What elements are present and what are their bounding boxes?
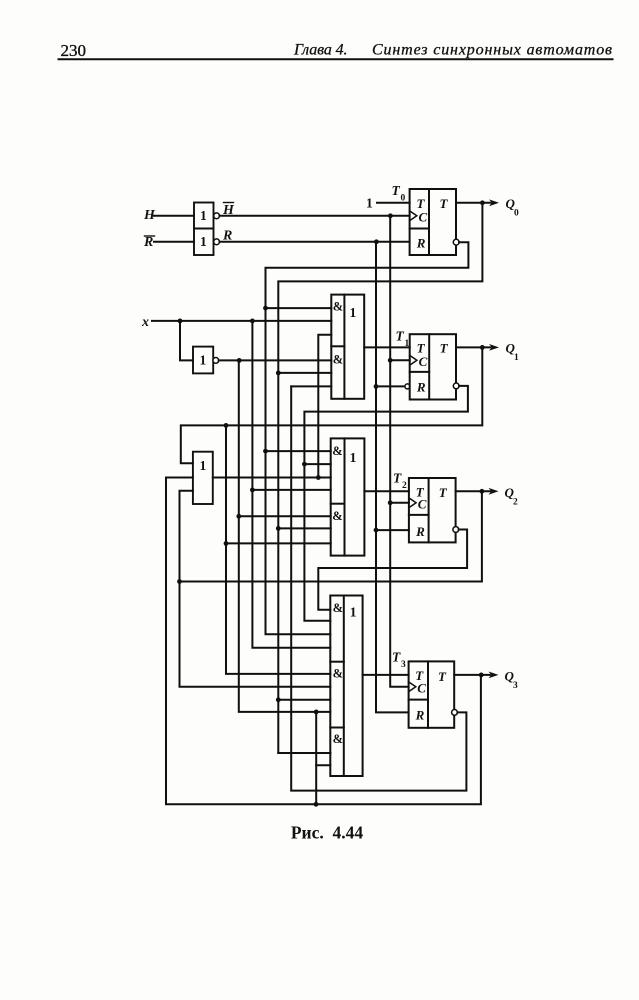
input label R-bar [143,235,153,250]
wire R-bar input [154,241,194,243]
FF1 clock triangle [410,355,417,365]
label Q2 [505,485,519,508]
wire x316 vertical (x-bar row to bottom rail) [315,712,317,804]
svg-text:x: x [141,315,149,330]
wire C bus branch to FF2 C [390,502,409,504]
wire R bus (vertical to FF3 R) [376,242,409,713]
junction R / R bus [374,239,379,244]
junction Q1 / x226 bus [224,423,229,428]
svg-text:C: C [419,354,428,369]
wire FF1 Q1 output [456,346,491,348]
overline of R-bar input [145,235,155,237]
label T1 [396,329,410,350]
wire x-bar branch to block2 [239,515,331,517]
svg-text:1: 1 [350,305,357,320]
svg-text:2: 2 [402,481,407,491]
wire Q1 branch to block2 [226,542,331,544]
wire Q0-bar branch to gate block1 [266,307,332,309]
wire H input [154,215,194,217]
svg-text:R: R [415,708,425,723]
inverter DD1.2 (R) box [194,229,214,256]
junction Q0 / block2 row [276,526,281,531]
inverter DD1.1 (H) box [194,203,214,229]
svg-text:R: R [415,524,425,539]
svg-text:1: 1 [350,450,357,465]
svg-text:0: 0 [514,209,519,219]
junction Q0 / block3 row [276,697,281,702]
svg-text:C: C [418,497,427,512]
svg-text:&: & [332,444,342,458]
svg-text:&: & [332,509,342,523]
wire block1 input row from OR2 (x=318.3 up) [318,335,331,478]
svg-text:1: 1 [350,604,357,619]
wire Q2 feedback (down-left to x179.5 bus) [180,491,482,581]
FF0 clock triangle [410,211,417,221]
wire FF0 Q0 output [456,202,491,204]
wire Q2-bar feedback (down-left into block3 top input) [318,530,467,610]
svg-text:Глава 4.: Глава 4. [293,42,348,59]
FF0 inverted output bubble [453,239,459,245]
junction Q3 [479,673,484,678]
svg-text:&: & [333,353,343,367]
svg-text:T: T [440,341,449,356]
junction Q2 row / x179.5 bus [177,579,182,584]
wire R bus branch to FF1 R bubble [376,385,405,387]
wire Q0 branch to block3 [278,699,330,701]
junction x / drop to inverter [178,319,183,324]
svg-text:T: T [396,329,405,344]
FF2 inverted output bubble [453,527,459,533]
arrow Q0 [489,199,499,206]
wire Q0 feedback (down-left, vertical bus x=278.3) [278,203,482,753]
wire Q1-bar feedback (down-left, vertical bus x=304.4) [304,386,468,621]
net label H-bar [222,203,235,218]
svg-text:T: T [392,183,401,198]
label T3 [392,650,406,671]
wire block1 output to FF1 T [364,346,410,348]
svg-text:T: T [392,650,401,665]
svg-text:&: & [333,732,343,746]
svg-text:T: T [393,471,402,486]
svg-text:R: R [416,380,426,395]
junction R bus / FF1 R [374,384,379,389]
label Q1 [506,341,520,364]
svg-text:3: 3 [513,681,518,691]
svg-text:Синтез синхронных автоматов: Синтез синхронных автоматов [372,42,612,59]
wire OR2 input 3 from Q2 (vertical x=179.5) [180,491,331,687]
label Q0 [506,196,520,219]
wire Q0 branch to block2 [278,527,330,529]
junction Q0 [480,200,485,205]
junction Q1 / block2 row [224,541,229,546]
junction x-bar row / x316 vertical [314,710,319,715]
svg-text:1: 1 [200,234,207,249]
wire block2 output to FF2 T [364,490,409,492]
wire Q0 branch to block1 [278,372,331,374]
arrow Q3 [489,672,499,679]
gate block2 (2x AND + OR) body [331,438,365,555]
wire x input [152,320,331,322]
wire x316 branch into block3 bottom AND [316,764,330,766]
junction Q0 / block1 row [276,371,281,376]
wire x-bar bus (vertical x=238.4) [239,360,330,712]
wire Q1 feedback (down-left to OR2 input 1) [181,347,483,463]
junction Q1-bar / block2 row [302,462,307,467]
wire OR2 input 2 from bottom rail (vertical x=166) and bottom rail to Q3 [166,478,481,805]
wire C bus (vertical to FF3 C) [390,216,408,687]
wire block3 output to FF3 T [363,674,409,676]
inverter DD1.2 output bubble [214,239,220,245]
flip-flop U4 (T3) body [409,661,455,727]
junction x-bar / x-bar bus [237,358,242,363]
svg-text:Рис. 4.44: Рис. 4.44 [291,823,364,843]
gate block3 (3x AND + OR) body [330,596,362,777]
svg-text:T: T [438,669,447,684]
inverter DD2 output bubble [213,358,219,364]
FF1 inverted output bubble [453,383,459,389]
label T0 [392,183,406,204]
junction x / block2 row [250,488,255,493]
wire x-bar to block1 [219,359,332,361]
svg-text:C: C [417,681,426,696]
overline of H-bar [224,202,234,204]
arrow Q2 [489,488,499,495]
OR gate DD3 (1) box [193,452,213,504]
label Q3 [505,669,519,692]
junction Q0-bar / block2 row [263,449,268,454]
FF2 clock triangle [409,498,416,508]
wire x bus (vertical x=252.4) [252,321,330,648]
svg-text:&: & [333,601,343,615]
flip-flop U1 (T0) body [410,189,456,255]
wire C bus branch to FF1 C [390,359,410,361]
flip-flop U3 (T2) body [409,478,456,542]
inverter DD1.1 output bubble [214,213,220,219]
junction Q1 [480,345,485,350]
svg-text:T: T [439,485,448,500]
svg-text:2: 2 [513,498,518,508]
junction Q2 [480,489,485,494]
gate block1 (2x AND + OR) body [331,295,364,399]
wire Q3-bar feedback (down-left, vertical bus x=291.2 up to block1) [291,386,466,790]
junction Q0-bar / block1 row [263,306,268,311]
FF3 inverted output bubble [452,710,458,716]
svg-text:T: T [440,196,449,211]
junction R bus / FF2 R [374,528,379,533]
wire Q1 bus (vertical x=226) [226,425,330,674]
label T2 [393,471,407,492]
svg-text:R: R [143,235,153,250]
wire constant 1 to FF0 T [377,202,410,204]
wire x drop to inverter DD2 [180,321,193,361]
junction C bus / FF1 C [388,358,393,363]
svg-text:1: 1 [200,353,207,368]
wire R to FF0 R input [220,241,410,243]
wire Q0 branch to block3 bottom AND (row y=753) [278,752,330,754]
junction H-bar / C bus [388,213,393,218]
FF3 clock triangle [409,682,416,692]
junction x / x bus [250,319,255,324]
svg-text:C: C [419,210,428,225]
junction OR2 output / x318.3 vertical [316,475,321,480]
wire Q1-bar branch to block2 [304,463,330,465]
wire Q0-bar branch to gate block2 [266,450,331,452]
wire OR2 output to block2 (row y=477.5) [213,477,331,479]
wire x branch to block2 [252,489,330,491]
flip-flop U2 (T1) body [410,334,456,399]
wire H-bar to FF0 C input [220,215,410,217]
svg-text:&: & [333,299,343,313]
wire Q3-bar bus branch into block1 [291,385,331,387]
junction x-bar / block2 row [236,514,241,519]
svg-text:1: 1 [514,353,519,363]
svg-text:230: 230 [61,41,87,60]
svg-text:R: R [416,236,426,251]
wire Q0-bar feedback (down-left, vertical bus x=265.5) [266,242,469,634]
FF1 R input bubble [405,384,410,389]
junction bottom rail / x316 vertical [314,802,319,807]
svg-text:3: 3 [401,660,406,670]
junction C bus / FF2 C [388,500,393,505]
inverter DD2 (x-bar) box [193,347,213,374]
svg-text:1: 1 [200,208,207,223]
wire R bus branch to FF2 R [376,529,409,531]
wire FF2 Q2 output [456,490,490,492]
svg-text:1: 1 [200,458,207,473]
svg-text:1: 1 [366,196,373,211]
svg-text:&: & [333,666,343,680]
arrow Q1 [489,344,499,351]
wire FF3 Q3 output [454,674,490,676]
header rule [59,58,613,60]
